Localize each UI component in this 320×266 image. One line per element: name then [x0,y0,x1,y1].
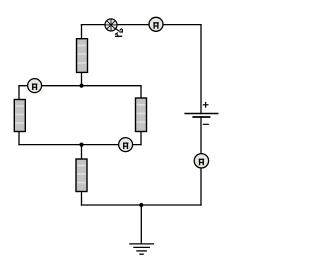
node junction ground [139,203,143,207]
wire left-top vertical [81,25,83,86]
ammeter A4 (right) [194,154,208,168]
node junction top [79,84,83,88]
battery + label [203,102,209,108]
wire right vertical lower [200,117,202,205]
resistor R4 (bottom) [76,159,87,192]
lamp L1 [105,19,117,31]
wire left vertical [18,86,20,145]
wire right-middle vertical [140,86,142,145]
ammeter A2 (left) [28,79,42,93]
wire middle horizontal [19,85,141,87]
resistor R2 (left) [14,100,25,132]
wire center vertical [81,145,83,205]
resistor R3 (middle right) [136,98,147,132]
wire lower-middle horizontal [19,144,141,146]
wire bottom horizontal [82,204,202,206]
resistor R1 (top) [77,39,88,73]
battery B1 [184,114,218,118]
node junction middle [79,143,83,147]
lamp click arrow [115,28,123,36]
wire right vertical upper [200,25,202,114]
ground [129,244,154,254]
ammeter A1 (top) [149,17,163,31]
battery - label [203,123,209,125]
wire top horizontal [82,24,202,26]
wire ground vertical [140,205,142,244]
ammeter A3 (middle) [119,138,133,152]
